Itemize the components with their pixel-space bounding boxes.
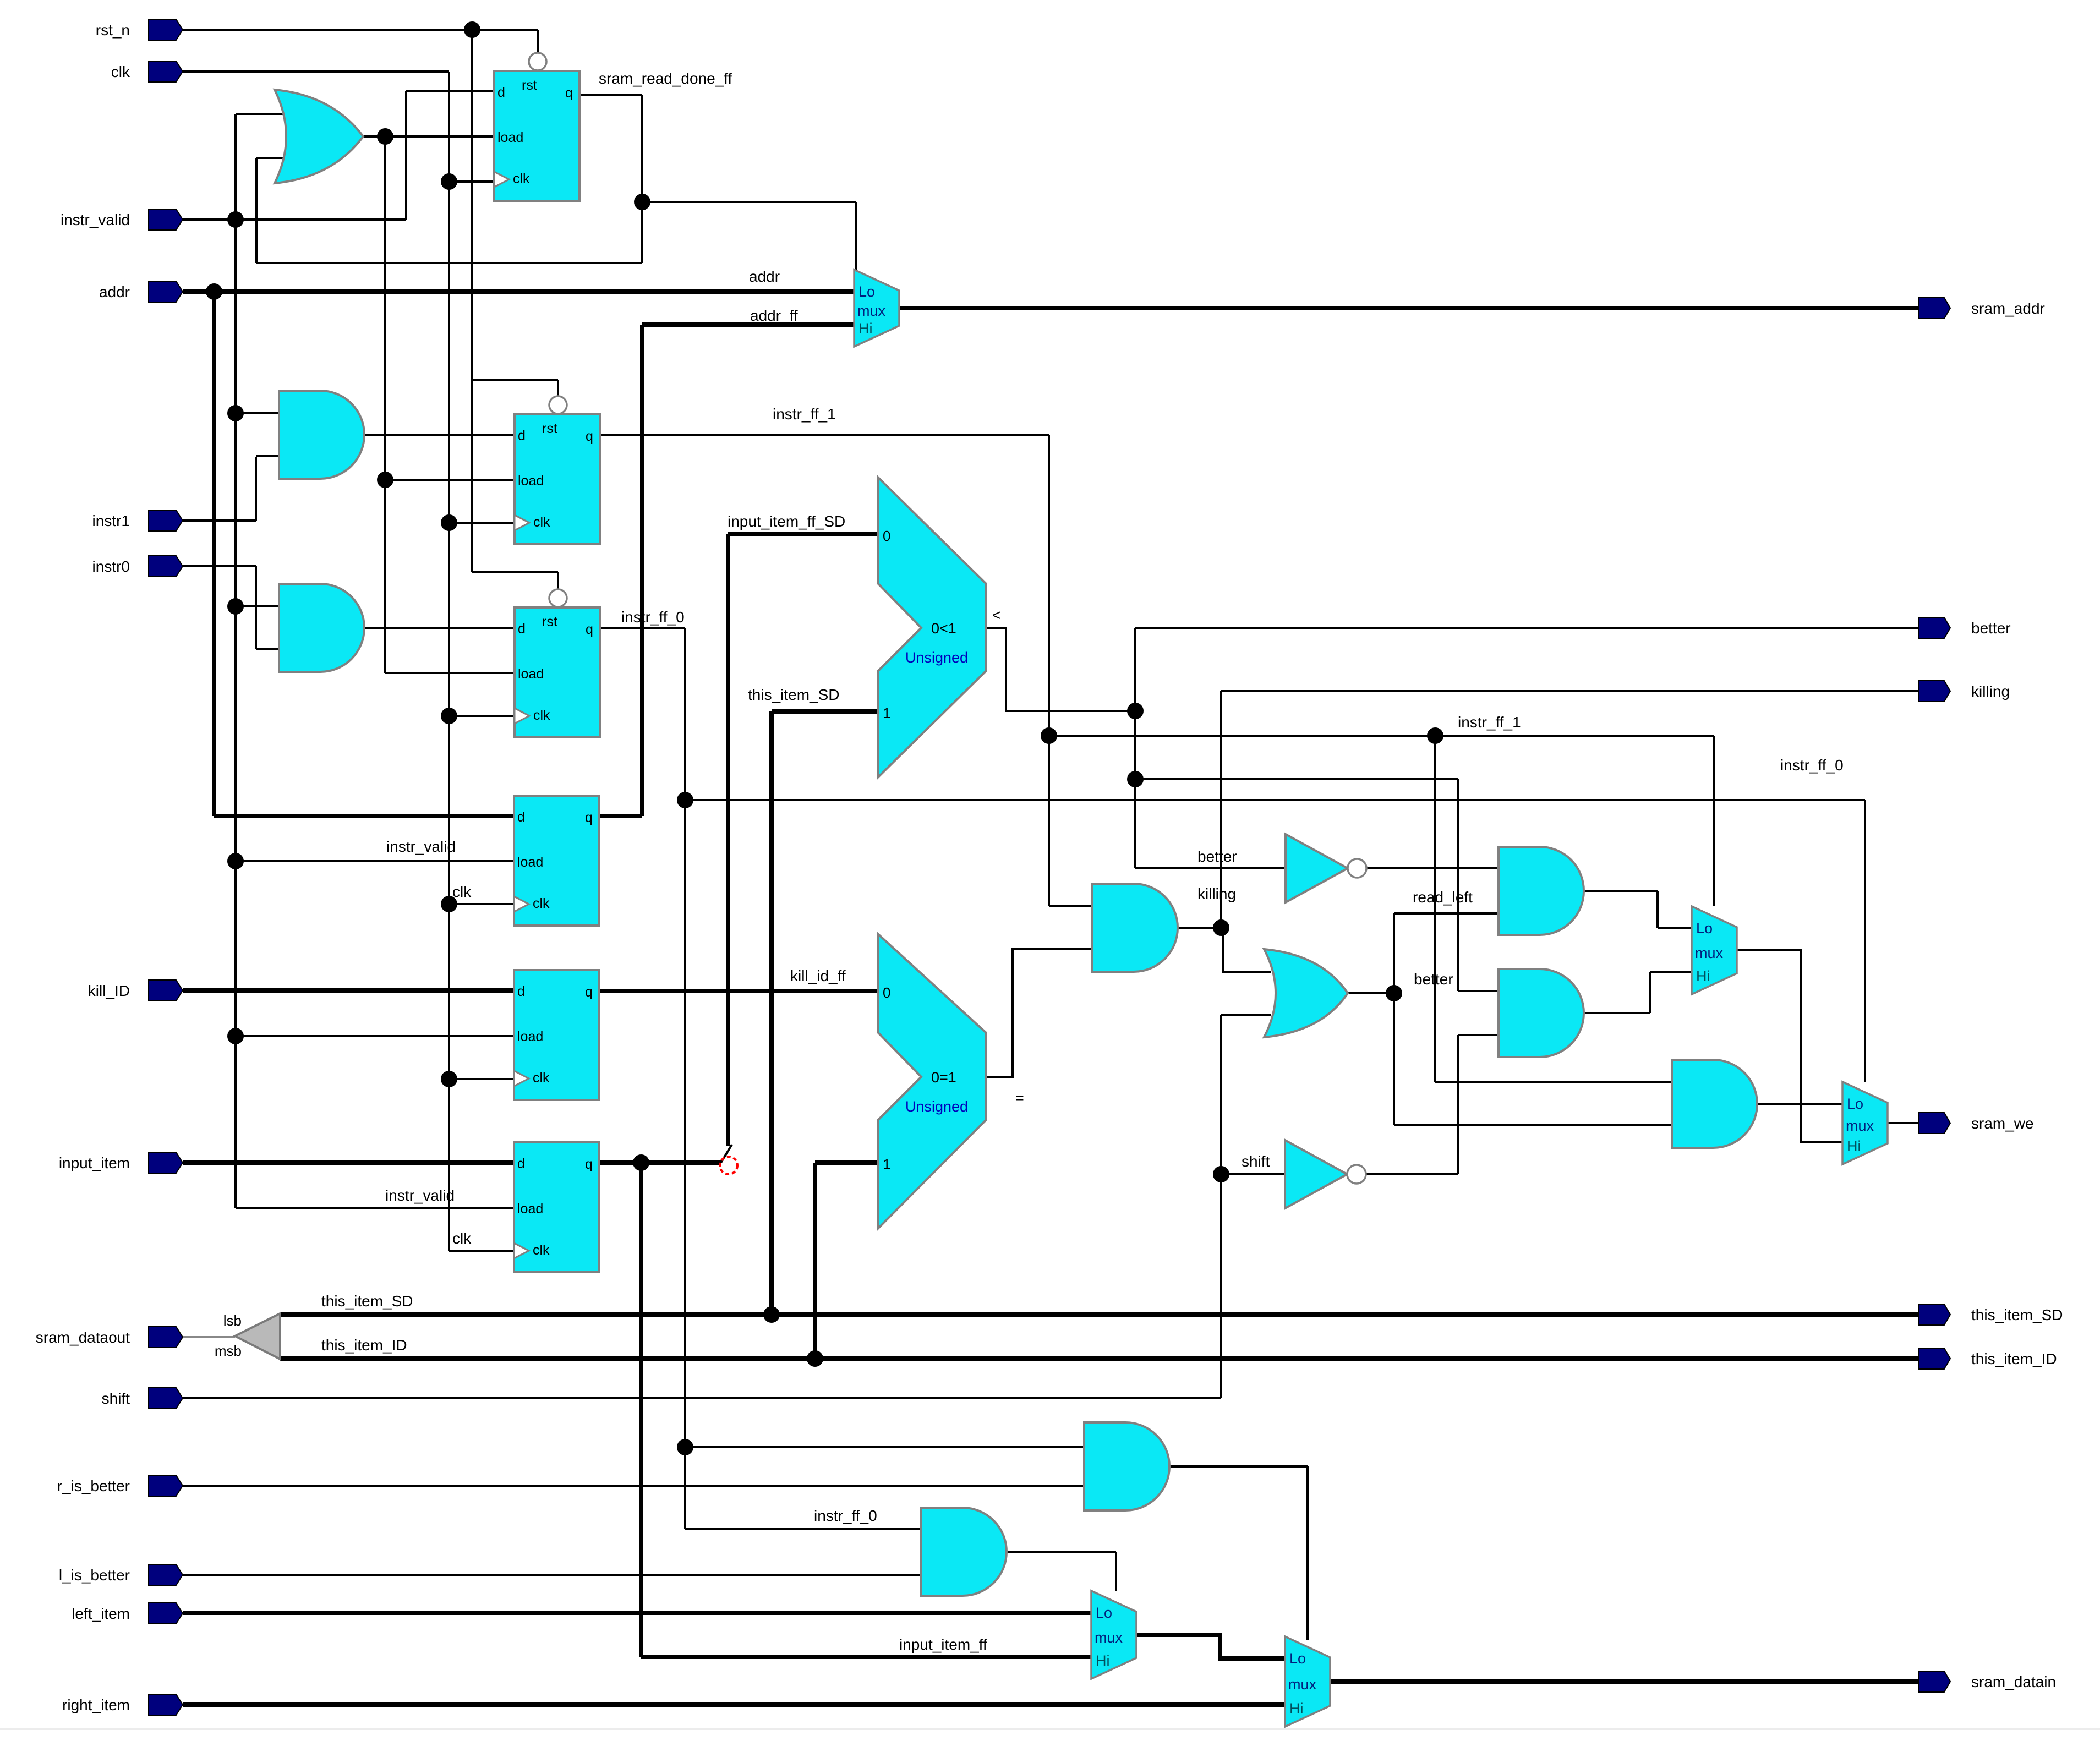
junction at (700,872): [377, 472, 393, 488]
svg-text:instr_ff_0: instr_ff_0: [621, 609, 685, 626]
svg-text:d: d: [518, 621, 526, 637]
wire addr_ff to mux0: [642, 322, 854, 327]
svg-text:input_item_ff: input_item_ff: [899, 1636, 987, 1653]
output port killing: [1919, 681, 2010, 702]
wire AND1 out to FF2 d: [364, 434, 515, 436]
junction at (1906,1337): [1041, 727, 1057, 744]
junction at (816,1301): [441, 708, 457, 724]
svg-text:sram_datain: sram_datain: [1971, 1673, 2056, 1690]
junction at (1167,367): [634, 194, 650, 210]
svg-text:clk: clk: [452, 883, 472, 900]
wire better drop to AND: [1457, 779, 1459, 991]
junction at (1165,2113): [633, 1154, 649, 1171]
net label addr_ff: [750, 307, 798, 324]
wire addr vertical: [212, 292, 216, 816]
svg-text:addr: addr: [749, 268, 780, 285]
wire better branch: [1135, 778, 1458, 780]
wire clk FF5: [449, 1078, 514, 1080]
input port sram_dataout: [36, 1327, 183, 1348]
net label kill_id_ff: [790, 967, 846, 984]
svg-text:clk: clk: [111, 63, 130, 80]
and-gate killing: [1092, 884, 1178, 972]
label < output: [992, 607, 1001, 623]
junction at (428,751): [227, 405, 244, 421]
and-gate AND2 instr_ff_0_d: [279, 584, 364, 672]
wire comp2 output: [986, 949, 1092, 1077]
mux M3 left_item/input_item_ff: [1091, 1591, 1136, 1679]
svg-text:mux: mux: [1288, 1676, 1317, 1693]
wire input_item: [183, 1160, 514, 1165]
junction at (2219,2134): [1213, 1166, 1229, 1182]
wire clk FF4: [449, 903, 514, 905]
svg-text:killing: killing: [1197, 885, 1236, 902]
wire instr_ff_1 drop: [1434, 736, 1436, 1082]
svg-text:Hi: Hi: [1696, 968, 1710, 984]
svg-text:r_is_better: r_is_better: [57, 1477, 130, 1494]
flip-flop sram_read_done_ff: [494, 38, 579, 201]
wire load FF3: [385, 672, 515, 674]
wire addr_ff vertical: [640, 325, 644, 816]
wire left_item: [183, 1611, 1091, 1615]
wire mux1 out: [1737, 950, 1842, 1142]
wire clk: [183, 70, 449, 73]
wire sram_read_done feedback: [256, 262, 642, 264]
svg-text:better: better: [1197, 848, 1237, 865]
svg-text:0<1: 0<1: [931, 620, 956, 637]
svg-text:instr_valid: instr_valid: [386, 838, 456, 855]
wire mux3 out: [1136, 1635, 1285, 1658]
net label shift: [1242, 1153, 1270, 1170]
svg-text:left_item: left_item: [72, 1605, 130, 1622]
wire mux0 select: [642, 202, 856, 270]
svg-text:Hi: Hi: [1847, 1138, 1861, 1154]
wire instr_valid vertical: [234, 114, 237, 1208]
wire instr_valid FF4 load: [236, 860, 514, 862]
wire instr0: [183, 565, 256, 567]
svg-text:0: 0: [883, 984, 890, 1001]
input port r_is_better: [57, 1475, 183, 1496]
wire AND2 out to FF3 d: [364, 627, 515, 629]
net label better: [1197, 848, 1237, 865]
wire instr_ff_0 run: [685, 799, 1865, 801]
svg-text:load: load: [518, 473, 544, 489]
svg-text:Lo: Lo: [858, 283, 875, 300]
svg-text:instr0: instr0: [92, 558, 130, 575]
wire read_left AND out: [1584, 891, 1658, 928]
output port sram_datain: [1919, 1671, 2056, 1692]
svg-text:load: load: [518, 666, 544, 682]
open switch to input_item_ff_SD: [721, 1145, 732, 1163]
svg-text:clk: clk: [533, 1242, 550, 1258]
wire input_item_ff q: [600, 1160, 721, 1165]
wire bigAND in2: [1394, 1124, 1672, 1126]
input port rst_n: [96, 19, 183, 40]
svg-text:this_item_SD: this_item_SD: [1971, 1306, 2063, 1323]
wire better AND in2: [1458, 1034, 1499, 1036]
output port this_item_SD: [1919, 1304, 2063, 1325]
svg-text:q: q: [585, 984, 593, 1000]
svg-text:l_is_better: l_is_better: [59, 1567, 130, 1584]
svg-text:sram_addr: sram_addr: [1971, 300, 2045, 317]
svg-text:this_item_ID: this_item_ID: [321, 1337, 407, 1354]
svg-text:msb: msb: [215, 1343, 242, 1359]
wire input_item_ff_SD vertical: [726, 534, 730, 1146]
inverter NOT shift: [1285, 1140, 1366, 1208]
and-gate sram_we AND: [1672, 1060, 1757, 1148]
svg-text:Hi: Hi: [1289, 1700, 1304, 1717]
svg-text:instr_ff_0: instr_ff_0: [814, 1507, 877, 1524]
wire instr1 riser: [255, 457, 257, 521]
splitter sram_dataout lsb/msb: [215, 1312, 280, 1359]
wire kill_id_ff: [599, 989, 878, 993]
svg-text:instr_ff_0: instr_ff_0: [1780, 757, 1844, 774]
wire comp1 in0: [728, 532, 878, 536]
wire rst FF2: [472, 380, 558, 396]
wire addr bus: [183, 289, 854, 294]
wire shift riser: [1220, 1015, 1222, 1398]
svg-text:instr_ff_1: instr_ff_1: [773, 406, 836, 423]
svg-text:instr_ff_1: instr_ff_1: [1458, 714, 1521, 731]
wire sram_read_done_ff q: [577, 94, 642, 96]
wire clk FF2: [449, 522, 515, 524]
svg-text:kill_id_ff: kill_id_ff: [790, 967, 846, 984]
svg-text:clk: clk: [533, 1070, 550, 1086]
junction at (2063,1416): [1127, 771, 1144, 787]
net label killing: [1197, 885, 1236, 902]
input port shift: [102, 1388, 183, 1409]
wire AND1 in2: [256, 455, 282, 457]
wire addr to FF4 d: [214, 814, 514, 818]
svg-text:Hi: Hi: [858, 320, 873, 337]
junction at (816,1961): [441, 1071, 457, 1087]
svg-text:q: q: [565, 85, 573, 101]
wire killing AND out: [1178, 927, 1221, 929]
junction at (858,54): [464, 21, 480, 38]
svg-text:d: d: [517, 809, 525, 825]
label = output: [1015, 1090, 1024, 1106]
wire instr_valid to FF1 d: [406, 91, 494, 220]
svg-text:q: q: [585, 810, 593, 825]
wire feedback up to OR1 in2: [256, 158, 286, 263]
wire rst_n vertical: [471, 30, 473, 572]
wire instr_valid FF6 load: [236, 1207, 514, 1209]
svg-text:q: q: [586, 429, 593, 444]
junction at (1402,2389): [763, 1306, 780, 1323]
svg-text:Lo: Lo: [1847, 1096, 1863, 1112]
wire mux1 Hi: [1650, 971, 1692, 973]
wire clk FF1: [449, 180, 494, 183]
wire better vertical: [1134, 628, 1136, 868]
wire instr_valid AND2: [236, 605, 282, 607]
svg-text:q: q: [585, 1157, 593, 1172]
svg-text:clk: clk: [533, 514, 550, 530]
net label instr_ff_0: [814, 1507, 877, 1524]
wire mux4 out: [1330, 1679, 1919, 1684]
wire AND2 in2: [256, 648, 282, 650]
and-gate AND_r r_is_better: [1084, 1422, 1169, 1510]
svg-text:better: better: [1971, 620, 2011, 637]
svg-text:mux: mux: [1695, 945, 1724, 961]
wire OR1 in1: [236, 113, 286, 115]
svg-text:mux: mux: [1846, 1118, 1874, 1134]
wire instr_ff_0 vertical: [684, 628, 686, 1529]
wire this_item_SD vertical: [769, 711, 774, 1315]
svg-text:read_left: read_left: [1413, 889, 1473, 906]
wire instr_ff_1 from q: [600, 434, 1049, 436]
wire load FF2: [385, 479, 515, 481]
input port right_item: [62, 1694, 183, 1715]
net label instr_ff_1: [1458, 714, 1521, 731]
flip-flop instr_ff_0: [515, 574, 600, 737]
svg-text:Hi: Hi: [1096, 1652, 1110, 1669]
mux M2 sram_we: [1842, 1082, 1888, 1164]
net label this_item_SD: [748, 686, 840, 703]
flip-flop instr_ff_1: [515, 381, 600, 544]
svg-text:addr: addr: [99, 283, 130, 300]
wire rst FF1 drop: [537, 30, 539, 53]
wire mux2 out: [1888, 1122, 1919, 1124]
red open-connection circle: [720, 1157, 737, 1174]
net label input_item_ff: [899, 1636, 987, 1653]
wire read_left AND in2: [1394, 912, 1499, 915]
wire AND_r out: [1170, 1466, 1308, 1640]
or-gate OR2 read_left: [1264, 949, 1348, 1037]
svg-text:load: load: [517, 1201, 543, 1217]
flip-flop addr_ff: [514, 796, 599, 926]
wire inv2 out: [1366, 1173, 1458, 1175]
wire clk FF3: [449, 715, 515, 717]
svg-text:lsb: lsb: [223, 1312, 242, 1329]
input port instr_valid: [61, 209, 183, 230]
wire AND_l out: [1007, 1552, 1116, 1591]
wire this_item_SD bus: [280, 1312, 1919, 1317]
and-gate read_left AND: [1499, 847, 1584, 935]
svg-text:this_item_SD: this_item_SD: [321, 1293, 413, 1310]
wire instr_valid AND1: [236, 412, 282, 414]
wire instr_ff_1 vertical: [1048, 435, 1050, 906]
junction at (2063,1292): [1127, 703, 1144, 719]
output port better: [1919, 617, 2011, 638]
flip-flop kill_id_ff: [514, 970, 599, 1100]
wire comp1 in1: [772, 709, 878, 714]
wire read_left vertical: [1393, 913, 1395, 1125]
wire kill_ID: [183, 988, 514, 993]
svg-text:load: load: [517, 1029, 543, 1044]
junction at (816,950): [441, 514, 457, 531]
inverter NOT better: [1286, 834, 1366, 902]
wire OR1 output to loads: [363, 135, 494, 138]
svg-text:rst: rst: [542, 421, 557, 436]
svg-text:right_item: right_item: [62, 1696, 130, 1713]
svg-text:clk: clk: [452, 1230, 472, 1247]
wire load vertical: [384, 136, 386, 673]
svg-text:0=1: 0=1: [931, 1069, 956, 1086]
svg-text:sram_we: sram_we: [1971, 1115, 2034, 1132]
wire clk FF6: [449, 1250, 514, 1252]
junction at (1245,2630): [677, 1439, 693, 1455]
wire input_item_ff vertical: [639, 1163, 643, 1657]
wire OR2 in2: [1221, 1014, 1271, 1016]
svg-text:Unsigned: Unsigned: [905, 649, 968, 666]
svg-text:sram_read_done_ff: sram_read_done_ff: [599, 70, 732, 87]
wire OR2 out: [1348, 992, 1394, 994]
net label instr_ff_1: [773, 406, 836, 423]
svg-text:1: 1: [883, 1156, 890, 1173]
svg-text:Unsigned: Unsigned: [905, 1098, 968, 1115]
svg-text:rst: rst: [522, 78, 537, 93]
net label instr_valid: [385, 1187, 455, 1204]
svg-text:better: better: [1414, 971, 1453, 988]
junction at (816,1643): [441, 896, 457, 912]
svg-text:0: 0: [883, 528, 890, 544]
svg-text:input_item_ff_SD: input_item_ff_SD: [728, 513, 845, 530]
flip-flop input_item_ff: [514, 1142, 599, 1272]
svg-text:d: d: [517, 984, 525, 999]
svg-text:mux: mux: [857, 303, 886, 319]
net label clk: [452, 1230, 472, 1247]
wire this_item_ID bus: [280, 1356, 1919, 1361]
input port kill_ID: [88, 980, 183, 1001]
wire killing to port: [1221, 691, 1919, 928]
wire better AND out: [1584, 972, 1650, 1013]
junction at (2219,1686): [1213, 919, 1229, 936]
wire bigAND in1: [1435, 1081, 1672, 1083]
junction at (389,530): [206, 283, 222, 300]
wire shift: [183, 1397, 1221, 1399]
wire instr_valid: [183, 218, 406, 221]
junction at (428,1102): [227, 598, 244, 615]
svg-text:rst: rst: [542, 614, 557, 629]
wire instr_valid FF5 load: [236, 1035, 514, 1037]
wire rst_n: [183, 29, 538, 31]
svg-text:this_item_ID: this_item_ID: [1971, 1350, 2057, 1367]
svg-text:sram_dataout: sram_dataout: [36, 1329, 130, 1346]
wire sram_dataout: [183, 1336, 235, 1338]
or-gate OR1 load-enable: [275, 90, 363, 183]
comparator LT unsigned: [878, 478, 986, 777]
svg-text:addr_ff: addr_ff: [750, 307, 798, 324]
junction at (2608,1337): [1427, 727, 1443, 744]
svg-text:instr_valid: instr_valid: [61, 211, 130, 228]
svg-text:1: 1: [883, 705, 890, 721]
output port this_item_ID: [1919, 1348, 2057, 1369]
svg-text:input_item: input_item: [59, 1154, 130, 1171]
wire right_item: [183, 1702, 1285, 1707]
wire sram_read_done vertical: [641, 95, 643, 263]
wire instr_ff_1 run: [1049, 735, 1714, 737]
wire instr0 dropper: [255, 566, 257, 649]
svg-text:d: d: [517, 1156, 525, 1171]
svg-text:Lo: Lo: [1096, 1605, 1112, 1621]
wire comp1 output: [986, 628, 1135, 711]
net label better: [1414, 971, 1453, 988]
wire FF4 q: [600, 814, 642, 818]
output port sram_addr: [1919, 298, 2045, 319]
wire instr1: [183, 519, 256, 522]
and-gate AND1 instr_ff_1_d: [279, 391, 364, 479]
svg-text:<: <: [992, 607, 1001, 623]
wire killing AND in1: [1049, 905, 1092, 907]
wire clk vertical: [448, 72, 450, 1251]
wire inv1 out: [1366, 867, 1499, 869]
wire this_item_ID vertical: [813, 1163, 817, 1359]
and-gate better AND: [1499, 969, 1584, 1057]
input port instr0: [92, 556, 183, 577]
wire rst FF3: [472, 572, 558, 589]
wire bigAND out: [1758, 1103, 1842, 1105]
wire inv2 riser: [1457, 1035, 1459, 1174]
svg-text:q: q: [586, 622, 593, 637]
junction at (428,1883): [227, 1028, 244, 1044]
wire instr_ff_0 to AND_l: [685, 1528, 921, 1530]
svg-text:Lo: Lo: [1696, 920, 1713, 937]
net label input_item_ff_SD: [728, 513, 845, 530]
svg-text:rst_n: rst_n: [96, 21, 130, 39]
output port sram_we: [1919, 1113, 2034, 1134]
input port input_item: [59, 1152, 183, 1173]
junction at (428,1565): [227, 853, 244, 869]
input port left_item: [72, 1603, 183, 1624]
net label this_item_SD: [321, 1293, 413, 1310]
svg-text:this_item_SD: this_item_SD: [748, 686, 840, 703]
junction at (700,248): [377, 128, 393, 145]
window edge line: [0, 1728, 2100, 1730]
input port l_is_better: [59, 1564, 183, 1585]
svg-text:instr1: instr1: [92, 512, 130, 529]
svg-text:clk: clk: [533, 896, 550, 911]
wire better to port: [1135, 627, 1919, 629]
junction at (816,330): [441, 173, 457, 190]
svg-text:clk: clk: [533, 708, 550, 723]
svg-text:d: d: [497, 85, 505, 100]
svg-text:mux: mux: [1095, 1629, 1123, 1646]
comparator EQ unsigned: [878, 934, 986, 1228]
net label instr_ff_0: [621, 609, 685, 626]
wire instr_ff_0 to AND_r: [685, 1446, 1084, 1448]
svg-text:Lo: Lo: [1289, 1650, 1306, 1667]
wire better AND in1: [1458, 990, 1499, 992]
junction at (1481,2469): [807, 1350, 823, 1367]
mux M0 addr: [854, 270, 899, 347]
net label clk: [452, 883, 472, 900]
svg-text:=: =: [1015, 1090, 1024, 1106]
net label addr: [749, 268, 780, 285]
input port instr1: [92, 510, 183, 531]
svg-text:shift: shift: [102, 1390, 130, 1407]
wire instr_ff_0 from q: [600, 627, 685, 629]
net label instr_valid: [386, 838, 456, 855]
wire mux1 select: [1713, 736, 1715, 906]
svg-text:load: load: [497, 130, 523, 145]
wire killing to OR2: [1221, 928, 1271, 972]
svg-text:d: d: [518, 428, 526, 444]
svg-text:instr_valid: instr_valid: [385, 1187, 455, 1204]
svg-text:kill_ID: kill_ID: [88, 982, 130, 999]
junction at (428,399): [227, 211, 244, 228]
net label instr_ff_0: [1780, 757, 1844, 774]
wire shift to inverter: [1221, 1173, 1285, 1175]
wire sram_addr bus: [899, 306, 1919, 310]
net label read_left: [1413, 889, 1473, 906]
wire r_is_better: [183, 1485, 1084, 1487]
net label this_item_ID: [321, 1337, 407, 1354]
junction at (1245,1454): [677, 792, 693, 808]
wire input_item_ff to mux3: [641, 1655, 1091, 1659]
svg-text:clk: clk: [513, 171, 530, 187]
wire mux1 Lo: [1658, 927, 1692, 929]
wire comp2 in1: [815, 1160, 878, 1165]
mux M1 read_left/better: [1692, 906, 1737, 994]
